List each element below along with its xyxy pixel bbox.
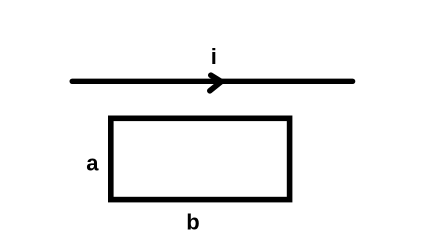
current direction arrowhead xyxy=(210,75,222,91)
rectangular loop xyxy=(111,118,290,199)
svg-text:i: i xyxy=(211,44,217,69)
svg-text:b: b xyxy=(186,209,199,234)
wire (straight current-carrying conductor) xyxy=(72,79,352,84)
svg-text:a: a xyxy=(86,150,99,175)
